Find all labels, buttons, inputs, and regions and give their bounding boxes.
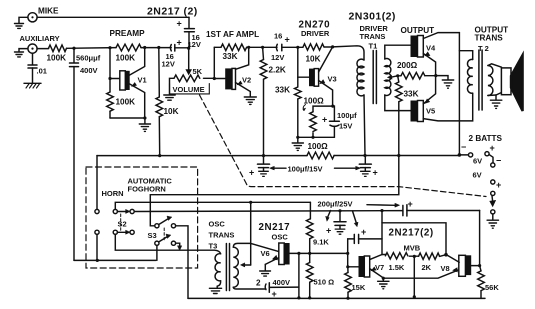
resistor 100ohm (V3 emitter) (310, 106, 333, 137)
transformer T3 primary coil (215, 254, 221, 286)
resistor 100K (V1 bias lower) (107, 79, 135, 119)
svg-text:400V: 400V (80, 66, 98, 75)
wire T2 sec to speaker (488, 64, 502, 96)
ground (hatched, under .01) (24, 83, 41, 88)
svg-text:+: + (249, 168, 254, 178)
svg-text:S2: S2 (118, 220, 127, 229)
label OSC TRANS T3 (209, 220, 235, 251)
node V6 base tap (249, 201, 252, 204)
node volume feed (187, 47, 190, 50)
svg-text:100μf/15V: 100μf/15V (288, 165, 323, 174)
capacitor .01 (28, 53, 47, 83)
transistor V8 (441, 255, 472, 277)
svg-text:100K: 100K (116, 54, 136, 63)
svg-text:AUXILIARY: AUXILIARY (20, 34, 60, 43)
wire osc output drop (298, 253, 300, 297)
transistor V6 (251, 243, 290, 271)
wire T3 tap with arrow (241, 263, 251, 267)
wire S3-LR arrow drop (176, 243, 182, 250)
svg-text:+: + (272, 289, 277, 299)
wire bottom rail (188, 297, 485, 299)
switch S3 lower pole (155, 234, 176, 245)
svg-text:TRANS: TRANS (360, 32, 386, 41)
svg-text:V5: V5 (426, 107, 435, 116)
wire V3 emitter rail (298, 136, 335, 138)
svg-text:OSC: OSC (272, 233, 289, 242)
svg-text:−: − (461, 142, 466, 152)
label AUTOMATIC FOGHORN (128, 177, 173, 194)
wire V3 base riser (297, 47, 299, 77)
resistor 100ohm (in rail) (307, 152, 334, 159)
resistor 15K (345, 267, 366, 299)
node rail mvb (413, 295, 416, 298)
node 2.2K drop (262, 154, 265, 157)
svg-text:+: + (496, 180, 501, 190)
svg-text:DRIVER: DRIVER (301, 29, 330, 38)
wire S2-LL drop and line (115, 234, 220, 253)
wire rail to horn contact (96, 156, 98, 210)
node 9.1K/510 junction (308, 252, 311, 255)
dashed box AUTOMATIC FOGHORN (86, 167, 198, 268)
wire emitter bottom (110, 117, 145, 119)
wire T1 center tap (388, 75, 398, 79)
svg-text:12V: 12V (271, 53, 284, 62)
wire to T2 primary top (459, 51, 472, 60)
svg-text:V4: V4 (426, 44, 436, 53)
svg-text:100Ω: 100Ω (308, 142, 329, 151)
svg-text:6V: 6V (473, 157, 482, 166)
resistor 100K (preamp collector load) (116, 44, 142, 62)
wire to V7 base (347, 253, 349, 266)
node 200uf ground cap tap (338, 209, 341, 212)
transistor V1 (110, 48, 147, 119)
svg-text:+: + (408, 199, 413, 209)
svg-text:V7: V7 (375, 263, 384, 272)
svg-text:100Ω: 100Ω (304, 97, 325, 106)
node emitters junction (434, 74, 437, 77)
svg-text:6V: 6V (473, 171, 482, 180)
resistor 33K (output bias) (396, 76, 419, 156)
wire horn lower drop (96, 234, 98, 260)
resistor 33K (driver base) (275, 77, 301, 137)
resistor 100K (aux input) (47, 45, 67, 63)
jack MIKE (28, 13, 37, 22)
svg-text:510 Ω: 510 Ω (314, 278, 335, 287)
wire T1 sec top to V4 base (385, 45, 411, 59)
svg-text:2N217: 2N217 (259, 222, 291, 233)
svg-text:V6: V6 (261, 249, 270, 258)
node 10K drop (158, 154, 161, 157)
resistor 10K (V1 load divider) (156, 48, 179, 156)
svg-text:1ST AF AMPL: 1ST AF AMPL (206, 30, 259, 39)
node V7 base/15K (346, 265, 349, 268)
transistor V4 (411, 33, 460, 76)
svg-text:2 BATTS: 2 BATTS (469, 134, 503, 143)
resistor 33K (V2 bias) (214, 44, 246, 61)
ground (driver stage) (292, 137, 303, 150)
node base junction (108, 77, 111, 80)
ground (T3 primary) (209, 286, 221, 293)
transformer T1 core (373, 51, 376, 104)
svg-text:200μf/25V: 200μf/25V (318, 200, 353, 209)
node V1 collector at bus (143, 46, 146, 49)
ground (V2 emitter) (244, 97, 256, 104)
potentiometer 5K VOLUME (170, 75, 215, 95)
svg-text:T3: T3 (209, 242, 218, 251)
node rail 15K (346, 297, 349, 300)
svg-text:9.1K: 9.1K (313, 238, 329, 247)
switch blade (power, on volume) (490, 196, 496, 214)
resistor 2.2K (260, 47, 286, 155)
resistor 56K (478, 266, 500, 299)
ground (V1 emitter) (139, 118, 150, 131)
node emitter rail mid (311, 136, 314, 139)
capacitor 200uf (mvb coupling) (348, 227, 382, 253)
node 2.2K top (261, 46, 264, 49)
node V1 base feed (108, 46, 111, 49)
svg-text:100K: 100K (47, 54, 67, 63)
svg-text:15V: 15V (339, 122, 352, 131)
node emitter ground (143, 116, 146, 119)
svg-text:.01: .01 (37, 67, 47, 76)
svg-text:FOGHORN: FOGHORN (128, 185, 166, 194)
svg-text:V2: V2 (242, 76, 251, 85)
resistor 510 ohm (306, 253, 334, 297)
wire MVB center drop (413, 256, 415, 296)
wire rail right part (334, 155, 459, 157)
svg-text:+: + (373, 168, 378, 178)
capacitor 16uf 12V (mike input, vertical) (177, 17, 201, 49)
svg-text:2N217(2): 2N217(2) (389, 228, 434, 239)
label 200uf/25V with arrows (318, 200, 400, 227)
svg-text:−: − (496, 156, 501, 166)
wire MVB right drop (479, 211, 481, 266)
transistor V3 (298, 47, 337, 106)
transformer T3 core (226, 244, 229, 291)
transformer T1 primary coil (357, 59, 364, 96)
transformer T2 core (479, 50, 482, 110)
svg-text:100K: 100K (116, 98, 136, 107)
ground (battery switch) (487, 214, 498, 228)
wire bus to preamp (67, 47, 117, 50)
transformer T2 primary coil (467, 59, 472, 93)
wire node down to base (109, 48, 111, 79)
switch S2 lower pole (113, 230, 134, 234)
transistor V2 (214, 47, 251, 96)
label S3 with gang dashes (148, 228, 165, 242)
svg-text:HORN: HORN (102, 189, 124, 198)
svg-text:+: + (322, 115, 327, 125)
label 2N217 OSC (259, 222, 291, 242)
wire S2-UR line (134, 210, 402, 213)
node V8 collector (478, 264, 481, 267)
label OUTPUT TRANS T2 (475, 26, 509, 54)
svg-text:56K: 56K (485, 283, 499, 292)
contact (horn lower) (95, 230, 99, 234)
svg-text:1.5K: 1.5K (389, 263, 405, 272)
resistor 200 ohm (398, 72, 436, 79)
svg-text:+: + (177, 38, 182, 48)
node 560uuf tap (72, 47, 75, 50)
wire S2-UL riser and line (115, 202, 310, 209)
svg-text:+: + (361, 227, 366, 237)
svg-text:10K: 10K (164, 107, 179, 116)
svg-text:TRANS: TRANS (209, 231, 235, 240)
capacitor 16uf 12V (preamp coupling, horizontal) (162, 38, 189, 69)
svg-text:+: + (177, 19, 182, 29)
svg-text:15K: 15K (352, 283, 366, 292)
svg-text:33K: 33K (404, 90, 419, 99)
transistor V7 (348, 255, 384, 278)
node tap/200/33K (396, 74, 399, 77)
svg-text:OUTPUT: OUTPUT (401, 26, 435, 35)
node rail osc (297, 296, 300, 299)
ground (V7 emitter) (378, 278, 389, 289)
svg-text:16: 16 (274, 32, 282, 41)
wire V8 collector out (471, 265, 479, 267)
wire wiper arrow (186, 48, 192, 74)
wire bus to T1 primary (333, 46, 364, 60)
wire emitter link to V8 (383, 270, 459, 278)
svg-text:2.2K: 2.2K (269, 66, 286, 75)
capacitor 200uf (grounded) (326, 211, 346, 236)
node V3 collector at bus (331, 45, 334, 48)
transformer T2 secondary coil (488, 66, 493, 96)
svg-text:200Ω: 200Ω (397, 61, 418, 70)
ground (aux jack) (15, 49, 28, 57)
svg-text:+: + (326, 226, 331, 236)
svg-text:33K: 33K (275, 86, 290, 95)
svg-text:V1: V1 (138, 76, 147, 85)
node battery feed (458, 153, 462, 157)
ground (V6 emitter) (260, 271, 271, 276)
label 2 400V (256, 278, 290, 299)
wire aux jack to R (37, 48, 48, 50)
wire cross coupling top (382, 223, 446, 255)
wire to MVB input (310, 252, 348, 254)
label 2N301(2) DRIVER TRANS T1 (349, 11, 396, 51)
node MVB center (413, 255, 416, 258)
capacitor 100uf 15V (emitter bypass) (322, 106, 357, 137)
label 100uf/15V with arrows (270, 165, 361, 174)
resistor 2K (419, 253, 446, 272)
node at 560 return (96, 259, 99, 262)
wire T1 primary return (364, 95, 365, 156)
wire bias riser (213, 47, 215, 78)
label S2 with gang dashes (118, 214, 127, 230)
ground (speaker return) (490, 95, 501, 108)
wire T1 sec bottom to V5 base (385, 95, 411, 111)
contact (horn upper) (95, 209, 99, 213)
wire 560 return line (74, 259, 156, 261)
wire S3-UL to rail riser line (150, 156, 398, 226)
wire preamp out segment (141, 47, 171, 49)
capacitor 2uf 400V (265, 283, 299, 293)
svg-text:+: + (490, 143, 495, 153)
svg-text:VOLUME: VOLUME (173, 85, 205, 94)
ground (output emitters) (436, 76, 454, 89)
label box VOLUME (170, 84, 210, 94)
node V3 emitter (331, 105, 334, 108)
ground (mike jack) (15, 17, 28, 28)
wire V4 collector drop (458, 33, 460, 155)
svg-text:2N301(2): 2N301(2) (349, 11, 396, 23)
label 100ohm with arrow (303, 97, 324, 112)
node T1 primary return (363, 154, 366, 157)
svg-text:560μμf: 560μμf (76, 54, 101, 63)
wire S3-UR drop (176, 226, 188, 299)
label 2N217(2) MVB (389, 228, 434, 253)
svg-text:V8: V8 (441, 264, 450, 273)
node 33K output drop (397, 154, 400, 157)
resistor 1.5K (382, 253, 419, 272)
wire V6 base feed drop (250, 202, 252, 265)
switch S3 upper pole (155, 216, 176, 228)
svg-text:33K: 33K (223, 52, 238, 61)
capacitor 560uuf 400V (70, 48, 101, 260)
node emitter rail left (296, 136, 299, 139)
svg-text:2K: 2K (422, 263, 432, 272)
wire S3-LL drop (156, 245, 158, 260)
node V3 bias (296, 46, 299, 49)
svg-text:2: 2 (256, 279, 261, 288)
wire mike to coupling cap (37, 16, 189, 18)
node rail 510 (308, 296, 311, 299)
svg-text:10K: 10K (306, 55, 321, 64)
wire long B- rail (97, 155, 307, 157)
node MVB right (444, 253, 448, 257)
jack AUXILIARY (28, 44, 37, 53)
node MVB left vertical (380, 209, 383, 212)
svg-text:12V: 12V (162, 60, 175, 69)
svg-text:MIKE: MIKE (38, 7, 59, 16)
wire bus segment (247, 46, 277, 48)
node V7 emitter/ground (382, 277, 385, 280)
node osc output (297, 252, 300, 255)
svg-text:TRANS: TRANS (475, 34, 504, 43)
node mvb input lower (346, 252, 349, 255)
speaker (501, 55, 522, 111)
capacitor 100uf/15V (left bypass) (249, 156, 270, 178)
resistor 9.1K (306, 202, 329, 253)
svg-text:S3: S3 (148, 231, 157, 240)
svg-text:100μf: 100μf (337, 111, 357, 120)
node 10K top (157, 46, 160, 49)
svg-text:V3: V3 (328, 75, 337, 84)
capacitor 100uf/15V (right bypass) (359, 156, 377, 178)
label 2N270 DRIVER (299, 20, 331, 39)
svg-text:OSC: OSC (209, 220, 226, 229)
wire V6 collector (290, 252, 310, 254)
battery terminals 6V #2 (473, 171, 502, 196)
node V2 collector (247, 46, 250, 49)
switch S2 upper pole (113, 209, 134, 213)
svg-text:PREAMP: PREAMP (110, 29, 146, 38)
wire MVB left vertical (381, 211, 383, 255)
svg-text:MVB: MVB (404, 244, 421, 253)
resistor 10K (driver bias) (298, 44, 333, 64)
transformer T1 secondary coil (385, 59, 391, 96)
ground (volume low end) (164, 95, 175, 100)
transformer T3 secondary coil (233, 243, 265, 289)
battery terminals 6V #1 (459, 142, 501, 167)
transistor V5 (411, 76, 473, 122)
capacitor 16uf 12V (V2 coupling) (271, 32, 298, 63)
svg-text:+: + (285, 35, 290, 45)
dashed gang line volume to switch (200, 95, 487, 197)
svg-text:2N217 (2): 2N217 (2) (147, 6, 198, 18)
capacitor 200uf (osc coupling) (403, 199, 480, 216)
svg-text:T1: T1 (369, 42, 378, 51)
svg-text:400V: 400V (273, 278, 291, 287)
node V2 base (213, 77, 216, 80)
